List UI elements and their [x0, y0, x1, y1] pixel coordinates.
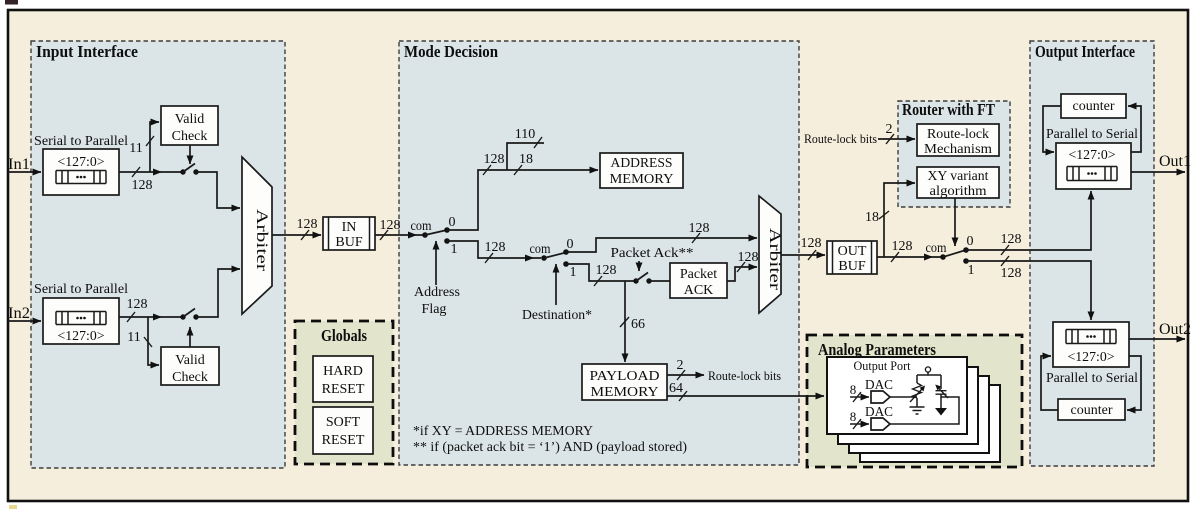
output port sheet 2 — [838, 367, 978, 444]
svg-text:Destination*: Destination* — [522, 308, 592, 323]
svg-text:Route-lock bits: Route-lock bits — [708, 368, 781, 383]
arrowhead on IN BUF output — [408, 232, 417, 239]
arrowhead before com (output demux) — [924, 254, 933, 261]
output port sheet 3 — [849, 376, 989, 453]
scan artifact top-left — [5, 0, 18, 5]
svg-text:<127:0>: <127:0> — [58, 329, 105, 344]
svg-text:128: 128 — [484, 152, 505, 167]
svg-text:ACK: ACK — [684, 283, 714, 298]
svg-text:Route-lock bits: Route-lock bits — [804, 131, 877, 146]
bus wire S2P1 output — [119, 171, 183, 173]
slash bus 128 (dest-1) — [594, 276, 602, 286]
bus 8 into DAC U1 — [850, 396, 869, 398]
svg-text:<127:0>: <127:0> — [58, 155, 105, 170]
wire RV1 to ground — [916, 398, 918, 407]
svg-text:com: com — [530, 242, 551, 257]
svg-text:0: 0 — [449, 215, 456, 230]
wire In1 input — [8, 171, 41, 173]
slash bus 128 (out-0) — [1001, 245, 1009, 255]
svg-text:Packet: Packet — [680, 267, 717, 282]
svg-text:Mode Decision: Mode Decision — [404, 42, 498, 61]
panel Router with FT — [898, 101, 1010, 207]
wire DAC U1 output — [890, 396, 917, 398]
wire In2 input — [8, 320, 41, 322]
node com (destination demux) — [541, 255, 547, 261]
svg-text:Arbiter: Arbiter — [766, 228, 783, 291]
svg-text:<127:0>: <127:0> — [1069, 148, 1116, 163]
feedback wire P2S1 to counter — [1128, 106, 1141, 152]
svg-text:Out1: Out1 — [1159, 153, 1191, 170]
arrowhead before com (dest demux) — [525, 255, 534, 262]
svg-text:com: com — [411, 219, 432, 234]
svg-text:IN: IN — [342, 220, 357, 235]
svg-text:Parallel to Serial: Parallel to Serial — [1046, 371, 1138, 386]
svg-text:algorithm: algorithm — [930, 184, 987, 199]
variable capacitor CV1 — [935, 375, 948, 398]
svg-text:2: 2 — [886, 122, 893, 137]
branch bus 18 to XY variant algorithm — [884, 183, 915, 257]
wire switch to arbiter input 2 — [196, 269, 240, 317]
slash bus 18 (router) — [879, 211, 889, 219]
contact 0 (output demux) — [963, 247, 969, 253]
switch valid gate (In2) — [180, 309, 198, 320]
svg-text:In2: In2 — [8, 305, 30, 322]
svg-text:Check: Check — [172, 129, 208, 144]
svg-text:DAC: DAC — [865, 404, 893, 419]
slash bus 128 (In1) — [132, 167, 140, 177]
svg-text:128: 128 — [485, 240, 506, 255]
svg-text:18: 18 — [865, 210, 879, 225]
svg-text:Flag: Flag — [422, 302, 447, 317]
switch blade (output demux) — [943, 250, 966, 257]
switch packet-ack gate — [633, 273, 651, 284]
wire demux-0 to ADDRESS MEMORY — [447, 170, 598, 230]
svg-text:1: 1 — [968, 263, 975, 278]
branch wire 11 to Valid Check (In2) — [148, 317, 159, 365]
bus 2 route-lock bits output — [667, 374, 704, 376]
panel Globals — [295, 321, 393, 464]
bus IN BUF output — [375, 234, 425, 236]
ground (earth) — [910, 407, 925, 414]
wire DAC U2 output loop — [890, 397, 959, 424]
svg-text:XY variant: XY variant — [928, 169, 989, 184]
slash bus 2 (route-lock out) — [677, 370, 685, 380]
slash bus 128 (OUT BUF out) — [891, 252, 899, 262]
svg-text:Serial to Parallel: Serial to Parallel — [34, 134, 128, 149]
parallel-to-serial register P2S2 — [1053, 322, 1129, 367]
svg-text:PAYLOAD: PAYLOAD — [590, 369, 660, 384]
slash bus 2 (route-lock in) — [886, 134, 894, 144]
scan artifact bottom-left — [9, 505, 17, 509]
switch blade (destination demux) — [544, 253, 566, 259]
svg-text:counter: counter — [1073, 99, 1115, 114]
svg-text:Valid: Valid — [175, 353, 205, 368]
svg-text:11: 11 — [127, 330, 140, 345]
svg-text:Serial to Parallel: Serial to Parallel — [34, 282, 128, 297]
svg-text:128: 128 — [689, 221, 710, 236]
bus A1 to IN BUF — [272, 234, 321, 236]
svg-text:128: 128 — [297, 217, 318, 232]
buffer IN BUF — [323, 217, 375, 250]
svg-text:11: 11 — [129, 141, 142, 156]
slash bus 128 (address path) — [483, 165, 491, 175]
control arrow Valid Check to switch (In1) — [189, 145, 191, 164]
svg-text:com: com — [926, 241, 947, 256]
node com (address demux) — [422, 232, 428, 238]
slash bus 128 (In2) — [127, 312, 135, 322]
panel Mode Decision — [399, 41, 799, 465]
svg-text:In1: In1 — [8, 156, 30, 173]
stub bus 110 — [507, 143, 544, 170]
branch wire 11 to Valid Check (In1) — [150, 122, 159, 172]
control arrow Destination* — [555, 264, 557, 305]
svg-text:MEMORY: MEMORY — [610, 172, 674, 187]
svg-text:Input Interface: Input Interface — [36, 42, 138, 61]
dac U2 symbol — [871, 418, 890, 430]
svg-text:Parallel to Serial: Parallel to Serial — [1046, 127, 1138, 142]
svg-text:BUF: BUF — [335, 235, 362, 250]
wire out-0 to P2S1 — [966, 191, 1091, 250]
wire demux-1 to destination demux — [447, 241, 541, 258]
dac U1 symbol — [871, 391, 890, 403]
svg-text:Valid: Valid — [175, 112, 205, 127]
wire dest-1 to packet switch — [566, 264, 636, 281]
svg-text:Check: Check — [172, 370, 208, 385]
svg-text:Output Interface: Output Interface — [1035, 42, 1135, 61]
svg-text:Output Port: Output Port — [854, 358, 911, 373]
slash bus 128 (A1 out) — [301, 230, 309, 240]
contact 1 (address demux) — [444, 238, 450, 244]
control arrow Packet Ack** — [638, 261, 640, 271]
svg-text:DAC: DAC — [865, 377, 893, 392]
wire CV1 to signal ground — [940, 397, 942, 408]
contact 0 (address demux) — [444, 227, 450, 233]
wire analog top bar — [917, 374, 941, 376]
svg-text:128: 128 — [801, 236, 822, 251]
svg-text:128: 128 — [596, 263, 617, 278]
buffer OUT BUF — [827, 241, 877, 274]
wire OUT BUF to output demux — [877, 256, 941, 258]
block counter (Out1) — [1061, 94, 1126, 118]
contact 0 (destination demux) — [563, 249, 569, 255]
svg-text:18: 18 — [519, 152, 533, 167]
slash bus 8 (U1) — [853, 392, 861, 402]
arbiter A2 — [759, 196, 783, 313]
feedback wire counter to P2S2 — [1041, 356, 1058, 410]
bus 2 route-lock bits to mechanism — [878, 138, 915, 140]
wire Out1 — [1131, 171, 1185, 173]
svg-text:RESET: RESET — [322, 433, 365, 448]
svg-text:Packet Ack**: Packet Ack** — [611, 246, 694, 261]
contact 1 (destination demux) — [563, 261, 569, 267]
switch valid gate (In1) — [180, 164, 198, 175]
svg-text:RESET: RESET — [322, 382, 365, 397]
slash bus 128 (dest-0 to A2) — [692, 233, 700, 243]
svg-text:Globals: Globals — [321, 326, 367, 345]
svg-text:128: 128 — [1001, 232, 1022, 247]
svg-text:128: 128 — [380, 218, 401, 233]
block Valid Check (In1) — [161, 106, 218, 145]
svg-text:Out2: Out2 — [1159, 321, 1191, 338]
svg-text:66: 66 — [631, 317, 645, 332]
memory PAYLOAD MEMORY — [582, 364, 667, 400]
control arrow Valid Check to switch (In2) — [189, 327, 191, 347]
svg-text:64: 64 — [669, 381, 683, 396]
svg-text:128: 128 — [132, 178, 153, 193]
panel Analog Parameters — [807, 335, 1022, 467]
panel Output Interface — [1030, 41, 1154, 466]
slash bus 128 (out-1) — [1001, 256, 1009, 266]
svg-text:HARD: HARD — [323, 364, 363, 379]
feedback wire P2S2 to counter — [1127, 356, 1141, 410]
arrowhead on S2P1 output bus — [153, 169, 162, 176]
slash bus 110 — [534, 137, 542, 148]
arrowhead on S2P2 output bus — [153, 314, 162, 321]
bus wire S2P2 output — [119, 316, 183, 318]
svg-text:Arbiter: Arbiter — [253, 209, 270, 272]
svg-text:128: 128 — [127, 297, 148, 312]
bus 8 into DAC U2 — [850, 423, 869, 425]
memory ADDRESS MEMORY — [600, 153, 683, 188]
svg-text:1: 1 — [570, 265, 577, 280]
svg-text:SOFT: SOFT — [326, 415, 361, 430]
svg-text:128: 128 — [1001, 266, 1022, 281]
slash bus 11 (In1) — [146, 136, 154, 146]
bus 64 to Analog Parameters — [667, 395, 824, 397]
wire junction to PAYLOAD MEMORY — [624, 281, 626, 362]
svg-text:128: 128 — [738, 250, 759, 265]
slash bus 18 (address path) — [514, 165, 522, 175]
parallel-to-serial register P2S1 — [1056, 143, 1131, 189]
slash bus 128 (IN BUF out) — [380, 230, 388, 240]
slash bus 8 (U2) — [853, 419, 861, 429]
svg-text:Mechanism: Mechanism — [924, 142, 992, 157]
svg-text:128: 128 — [892, 239, 913, 254]
control arrow Address Flag — [435, 241, 437, 285]
slash bus 128 (ack to A2) — [737, 262, 745, 272]
svg-text:<127:0>: <127:0> — [1068, 350, 1115, 365]
wire Out2 — [1129, 338, 1185, 340]
wire dest-0 to arbiter A2 — [566, 238, 757, 252]
block counter (Out2) — [1058, 399, 1125, 420]
panel Input Interface — [31, 41, 285, 468]
wire out-1 to P2S2 — [966, 261, 1091, 320]
svg-text:*if XY = ADDRESS MEMORY: *if XY = ADDRESS MEMORY — [413, 424, 593, 439]
output port sheet 1 (front) — [827, 357, 967, 434]
svg-text:8: 8 — [850, 409, 857, 424]
serial-to-parallel register S2P1 — [43, 149, 119, 195]
output port sheet 4 (back) — [860, 385, 1000, 462]
svg-text:** if (packet ack bit = ‘1’) A: ** if (packet ack bit = ‘1’) AND (payloa… — [413, 440, 687, 455]
serial-to-parallel register S2P2 — [43, 298, 119, 344]
feedback wire counter to P2S1 — [1043, 106, 1061, 152]
bus A2 to OUT BUF — [781, 254, 825, 256]
svg-text:counter: counter — [1071, 403, 1113, 418]
slash bus 64 — [679, 391, 687, 401]
svg-text:BUF: BUF — [838, 259, 865, 274]
potentiometer RV1 — [910, 375, 925, 402]
svg-text:0: 0 — [567, 237, 574, 252]
wire switch to Packet ACK block — [649, 280, 670, 282]
slash bus 128 (dest path) — [485, 253, 493, 263]
svg-text:ADDRESS: ADDRESS — [611, 156, 673, 171]
block SOFT RESET — [313, 407, 373, 454]
svg-text:Router with FT: Router with FT — [902, 100, 996, 119]
analog output terminal — [925, 367, 930, 375]
svg-text:OUT: OUT — [838, 244, 867, 259]
svg-text:8: 8 — [850, 382, 857, 397]
svg-text:110: 110 — [515, 127, 535, 142]
block Valid Check (In2) — [161, 347, 219, 385]
block Packet ACK — [670, 263, 727, 298]
slash bus 66 — [620, 317, 629, 327]
wire Packet ACK to arbiter A2 — [727, 267, 757, 281]
arbiter A1 — [242, 157, 272, 314]
svg-text:Address: Address — [414, 285, 460, 300]
ground (signal, triangle) — [935, 408, 947, 416]
block XY variant algorithm — [917, 167, 999, 199]
wire switch to arbiter input 1 — [196, 172, 240, 208]
svg-text:Route-lock: Route-lock — [927, 127, 989, 142]
switch blade (address demux) — [425, 230, 447, 235]
control arrow XY variant to output demux — [954, 198, 956, 246]
slash bus 11 (In2) — [144, 337, 152, 347]
slash bus 128 (A2 out) — [808, 250, 816, 260]
svg-text:MEMORY: MEMORY — [591, 385, 659, 400]
block HARD RESET — [313, 356, 373, 402]
svg-text:1: 1 — [451, 242, 458, 257]
node com (output demux) — [940, 254, 946, 260]
block Route-lock Mechanism — [917, 124, 999, 157]
contact 1 (output demux) — [963, 258, 969, 264]
svg-text:0: 0 — [967, 234, 974, 249]
svg-text:2: 2 — [677, 358, 684, 373]
